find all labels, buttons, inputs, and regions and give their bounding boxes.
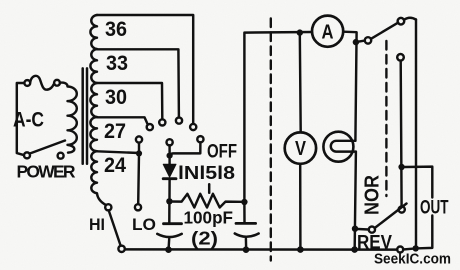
junction: lamp line/rail [351,246,358,253]
capacitor C2 top lead [243,205,246,222]
power switch S1 blade [30,141,65,154]
junction: voltmeter/rail [297,246,304,253]
lamp DS1 filament [331,141,356,152]
wire: to LO contact [137,153,140,204]
contact: REV [397,247,403,253]
resistor R1 value lead "1" [208,184,211,193]
svg-text:(2): (2) [191,229,218,249]
wire: S2 lower to NOR contact [399,61,402,207]
power switch S1 right contact [58,153,64,159]
svg-text:NOR: NOR [362,175,384,215]
transformer core [83,68,87,163]
junction: resistor/right branch [241,199,247,205]
dashed separator right [385,41,387,196]
contact: above LO line [136,136,142,142]
switch S2 blade [371,23,398,39]
contact: selector 30 [159,119,165,125]
wire: tap 30/27 [97,117,148,124]
junction: rail/right bus [413,245,419,251]
contact: LO [135,204,141,210]
contact: S2 lower [397,54,404,61]
svg-text:100pF: 100pF [184,208,234,228]
wire: wavy A-C top [30,76,54,90]
svg-text:HI: HI [89,215,105,234]
svg-text:24: 24 [104,154,126,177]
svg-text:A: A [322,22,334,44]
svg-text:OFF: OFF [207,142,237,163]
wire: ammeter to meter switch [343,32,356,141]
junction: diode anode node [167,153,173,159]
svg-text:33: 33 [106,52,128,75]
contact: OFF right [197,136,203,142]
voltmeter V [285,132,316,163]
wire: OFF link [170,142,201,155]
contact: NOR [399,206,405,212]
junction: C2/rail [243,246,250,253]
switch HI/LO blade [109,211,121,246]
svg-text:V: V [295,138,307,160]
lamp DS1 bulb [323,132,353,162]
capacitor C1 top lead [168,205,171,223]
contact: selector 36 [190,124,196,130]
svg-text:A-C: A-C [13,109,44,132]
diode D1 anode lead [168,159,170,165]
svg-text:30: 30 [105,86,127,109]
wire: voltmeter top lead [299,33,302,133]
contact: selector 27 [147,124,153,130]
svg-text:36: 36 [105,18,127,41]
wire: right branch vertical + to ammeter [244,32,312,199]
capacitor C1 top plate [164,222,182,225]
svg-text:OUT: OUT [420,198,449,219]
junction: REV pole tap [352,226,358,232]
bottom rail [125,248,397,251]
wire: tap 36/33 [97,49,179,117]
svg-text:LO: LO [132,215,156,234]
junction: tap24/LO [136,150,142,156]
contact: S2 upper [398,18,405,25]
wire: right bus [415,20,417,249]
wire: tap 36 top [97,15,193,124]
switch HI/LO common terminal [118,246,124,252]
terminal: A-C top-right [54,80,60,86]
capacitor C1 bottom plate [157,234,181,237]
junction: C1/rail [165,246,172,253]
wire: S2 upper to right bus [404,18,416,20]
wire: rail REV to bus [403,247,412,250]
power switch S1 left contact [24,152,30,158]
contact: HI [105,204,111,210]
wire: OUT top [405,167,433,198]
wire: lamp to rail [355,152,356,247]
diode D1 cathode lead [168,180,171,198]
wire: tap 27/24 [97,151,139,153]
svg-text:lNl5l8: lNl5l8 [178,163,235,183]
wire: stub to S3 pole [355,228,369,231]
wire: stub to S2 pivot [356,41,365,43]
contact: selector 33 [176,118,182,124]
wire: voltmeter bottom lead [299,164,302,246]
transformer primary winding [60,83,77,153]
wire: contact stem [138,143,140,151]
junction: OUT feed [398,164,404,170]
resistor R1 [169,194,241,208]
switch S3 pole [369,227,375,233]
diode D1 1N1518 [163,164,176,177]
capacitor C2 bottom plate [235,234,259,237]
wire: OFF stem [168,145,170,152]
switch S2 pivot [365,37,371,43]
contact: OFF left [167,139,173,145]
svg-text:POWER: POWER [17,162,76,182]
capacitor C2 bottom lead [245,239,248,247]
junction: diode/resistor/C1 [166,198,172,204]
switch S3 blade [375,204,407,229]
svg-text:REV: REV [357,233,392,254]
dashed separator left [270,19,272,261]
scan noise overlay [0,0,1,1]
capacitor C1 bottom lead [167,239,170,247]
capacitor C2 top plate [236,222,256,225]
svg-text:SeekIC.com: SeekIC.com [374,252,451,268]
svg-text:27: 27 [104,120,126,143]
junction: meter switch feed [353,39,359,45]
junction: voltmeter feed [297,29,303,35]
wire: A-C loop left side [17,83,25,155]
terminal: A-C top-left [24,80,30,86]
wire: OUT right lower [419,216,432,249]
wire: tap 33/30 [97,83,162,119]
transformer secondary winding [90,15,106,205]
ammeter A [312,16,343,47]
diode D1 cathode bar [163,177,176,180]
